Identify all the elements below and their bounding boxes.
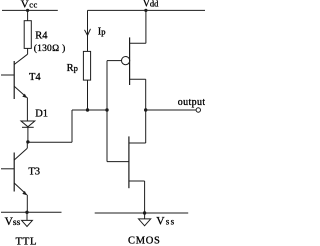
label Vss TTL bbox=[5, 216, 21, 228]
wire T4 emitter to D1 bbox=[26, 97, 28, 121]
Vss rail TTL bbox=[1, 211, 62, 213]
svg-text:D1: D1 bbox=[35, 109, 48, 120]
node Vcc junction bbox=[26, 9, 29, 12]
label Ip bbox=[98, 27, 106, 38]
Vdd label bbox=[143, 0, 159, 10]
node Vdd junction bbox=[144, 9, 147, 12]
wire R4 to T4 collector bbox=[27, 48, 29, 54]
svg-text:T3: T3 bbox=[28, 167, 40, 178]
svg-text:CMOS: CMOS bbox=[128, 235, 161, 246]
svg-text:Vss: Vss bbox=[5, 216, 21, 228]
transistor PMOS bbox=[107, 10, 146, 85]
svg-text:(130Ω ): (130Ω ) bbox=[34, 43, 66, 54]
svg-text:R4: R4 bbox=[35, 31, 48, 42]
transistor NMOS bbox=[107, 136, 146, 188]
wire Ip branch bbox=[87, 10, 89, 51]
wire gate vertical bbox=[106, 61, 108, 162]
resistor R4 bbox=[24, 21, 31, 49]
svg-text:output: output bbox=[178, 97, 205, 108]
svg-text:T4: T4 bbox=[29, 72, 41, 83]
svg-text:Rp: Rp bbox=[67, 63, 78, 74]
transistor T4 bbox=[1, 54, 28, 99]
node TTL Vss junction bbox=[25, 211, 28, 214]
Vcc power rail bbox=[2, 9, 58, 11]
node output junction bbox=[144, 108, 147, 111]
node Rp junction bbox=[86, 108, 89, 111]
resistor Rp bbox=[83, 51, 90, 80]
ground Vss symbol CMOS bbox=[144, 213, 146, 219]
node CMOS Vss junction bbox=[143, 211, 146, 214]
node TTL output junction bbox=[26, 140, 29, 143]
terminal output circle bbox=[196, 108, 200, 112]
wire step vertical bbox=[71, 110, 73, 142]
svg-text:TTL: TTL bbox=[16, 235, 38, 246]
node gate junction bbox=[105, 108, 108, 111]
Vdd power rail bbox=[88, 9, 206, 11]
svg-text:Vdd: Vdd bbox=[143, 0, 159, 10]
Vcc label bbox=[21, 0, 38, 11]
label Rp bbox=[67, 63, 78, 74]
label Vss CMOS bbox=[156, 216, 175, 228]
wire output bbox=[146, 109, 196, 111]
wire T3 emitter to Vss rail bbox=[26, 195, 28, 213]
wire Vcc to R4 bbox=[27, 10, 29, 20]
wire PMOS drain to output bbox=[145, 79, 147, 143]
Vss rail CMOS bbox=[95, 212, 189, 214]
transistor T3 bbox=[1, 142, 27, 195]
diode D1 bbox=[21, 121, 35, 127]
current arrow Ip bbox=[85, 29, 91, 36]
wire D1 to node bbox=[27, 127, 29, 142]
wire NMOS source to Vss bbox=[144, 181, 146, 213]
svg-text:Vcc: Vcc bbox=[21, 0, 38, 11]
wire TTL output horizontal bbox=[28, 141, 72, 143]
svg-text:Ip: Ip bbox=[98, 27, 106, 38]
ground Vss symbol TTL bbox=[26, 212, 28, 220]
svg-text:Vss: Vss bbox=[156, 216, 175, 228]
wire input node horizontal bbox=[72, 109, 107, 111]
wire Rp to input node bbox=[87, 80, 89, 110]
